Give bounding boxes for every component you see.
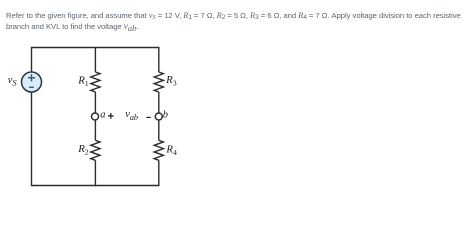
svg-text:R2: R2 [77, 143, 89, 156]
label - polarity of vab [146, 116, 150, 118]
svg-text:b: b [163, 109, 168, 120]
svg-text:vS: vS [8, 75, 18, 88]
wire: right branch between node b and R4 [158, 120, 160, 140]
svg-text:R3: R3 [165, 74, 177, 87]
wire: middle branch top lead [94, 48, 96, 73]
voltage source VS (independent source circle with + and -) [22, 72, 42, 92]
wire: middle branch between node a and R2 [94, 120, 96, 140]
wire: top rail from left branch to right branch [32, 47, 159, 49]
wire: right branch top lead [158, 47, 160, 72]
svg-text:a: a [100, 109, 105, 120]
wire: right branch bottom lead [158, 160, 160, 186]
svg-text:R1: R1 [77, 75, 89, 88]
wire: bottom rail [32, 185, 159, 187]
svg-text:R4: R4 [165, 143, 177, 156]
node a (open terminal circle) [92, 113, 99, 120]
node b (open terminal circle) [155, 113, 162, 120]
label + polarity of vab [108, 113, 114, 119]
resistor R3 [154, 72, 163, 92]
wire: middle branch bottom lead [94, 160, 96, 186]
resistor R1 [91, 72, 100, 92]
wire: right branch between R3 and node b [158, 92, 160, 113]
resistor R4 [154, 140, 163, 160]
wire: middle branch between R1 and node a [94, 92, 96, 113]
resistor R2 [91, 140, 100, 160]
svg-text:vab: vab [125, 109, 138, 122]
wire: left rail upper segment [31, 47, 33, 72]
wire: left rail lower segment [31, 92, 33, 186]
